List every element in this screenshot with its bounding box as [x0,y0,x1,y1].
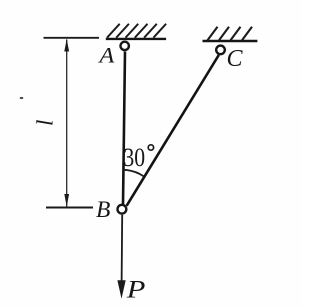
ceiling line at A [106,38,166,40]
svg-text:P: P [126,276,146,304]
bar AB [123,52,125,205]
svg-text:30: 30 [123,143,145,173]
label P [126,276,146,304]
label l (rotated) [33,120,58,126]
pin C [216,46,225,55]
pin A [121,42,129,50]
angle arc at B [123,170,143,176]
svg-text:l: l [33,120,58,126]
svg-text:A: A [97,43,115,68]
svg-text:C: C [227,46,244,72]
dimension line l (vertical) [66,40,68,207]
dimension arrow up [64,39,69,52]
dimension arrow down [64,194,69,207]
ceiling line at C [203,40,258,42]
hatching at A [107,24,166,38]
hatching at C [208,27,253,41]
angle label 30 [123,143,145,173]
dimension tick bottom (at level B) [46,207,93,209]
degree sign [148,145,153,150]
label A [97,43,115,68]
bar BC [127,55,219,206]
pin B [118,205,127,214]
dimension tick top (at level A) [44,37,100,39]
force P line [121,215,124,284]
svg-text:B: B [96,197,110,223]
force P arrowhead [117,280,125,299]
stray mark [20,97,24,99]
